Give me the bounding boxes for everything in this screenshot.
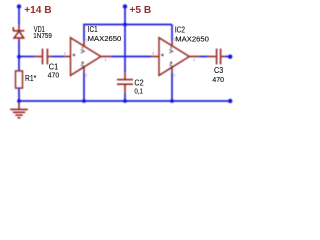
svg-text:470: 470 [48,72,60,79]
wire IC1 Vcc to +5V rail and rail to IC2 [84,25,172,42]
IC1 GND pin 2 (bottom) [83,67,85,73]
resistor R1 [16,71,23,88]
capacitor C3 [207,49,225,65]
node +5V terminal dot [123,4,127,8]
node A junction dot [17,55,21,59]
wire IC2 GND down [171,73,173,102]
svg-text:1N759: 1N759 [33,33,52,40]
svg-text:2: 2 [173,73,175,77]
svg-text:C3: C3 [214,66,223,75]
IC1 input pin 3 [65,56,71,58]
IC1 internal symbol top [81,47,85,54]
junction IC2 GND / ground rail [170,99,174,103]
svg-text:5: 5 [86,38,88,42]
op-amp U2 (IC2 MAX2650 triangle) [159,38,189,76]
junction C2 / ground rail [123,99,127,103]
wire from +14V terminal down to VD1 [18,7,20,25]
svg-text:R1*: R1* [25,74,36,83]
wire VD1 to node A [18,41,20,58]
IC1 Vcc pin 5 (top) [83,41,85,47]
svg-text:0,1: 0,1 [134,89,143,96]
junction +5V rail / C2 branch [123,23,127,27]
svg-text:4: 4 [193,58,195,62]
svg-text:IC1: IC1 [88,25,98,34]
wire node A to R1 [18,57,20,72]
wire node A to C1 [19,56,35,58]
wire IC2 out to C3 [199,56,207,58]
node +14V terminal dot [17,4,21,8]
svg-text:+5 В: +5 В [129,5,151,16]
svg-text:MAX2650: MAX2650 [175,34,209,43]
junction R1 / ground rail [17,99,21,103]
IC2 input pin 3 [151,56,159,58]
wire IC2 Vcc to rail [171,25,173,41]
svg-text:C2: C2 [134,79,143,88]
svg-text:3: 3 [152,52,154,56]
wire +5V terminal to rail [124,7,126,25]
wire IC1 GND down [83,73,85,102]
IC2 Vcc pin 5 (top) [171,40,173,46]
wire C2 to ground rail [124,94,126,102]
node ground-rail right terminal dot [228,99,232,103]
capacitor C2 [117,72,133,93]
IC2 input plus mark [161,54,164,57]
svg-text:470: 470 [212,77,224,84]
svg-text:4: 4 [104,58,106,62]
svg-text:+14 В: +14 В [24,5,51,16]
wire IC1 out to IC2 in [111,56,151,58]
IC1 output pin 4 [101,56,111,58]
ground rail (bottom wire) [19,100,229,102]
zener diode VD1 [13,25,24,42]
wire C1 to IC1 input [52,56,65,58]
IC2 GND pin 2 (bottom) [171,67,173,72]
IC1 input plus mark [73,54,76,57]
svg-text:2: 2 [85,73,87,77]
IC1 internal symbol bottom [81,61,85,68]
svg-text:MAX2650: MAX2650 [88,34,122,43]
IC2 internal symbol top [169,47,173,54]
node output terminal dot [228,55,232,59]
wire C3 to output terminal [225,56,229,58]
svg-text:IC2: IC2 [175,25,185,34]
ground symbol [10,103,28,118]
svg-text:3: 3 [64,51,66,55]
op-amp U1 (IC1 MAX2650 triangle) [71,38,101,76]
capacitor C1 [35,49,52,65]
IC2 internal symbol bottom [169,61,173,68]
junction IC1 GND / ground rail [82,99,86,103]
svg-text:C1: C1 [49,63,58,72]
wire R1 to ground rail [18,88,20,101]
wire +5V rail down to C2 (crosses signal, no junction) [124,25,126,73]
IC2 output pin 4 [189,56,199,58]
svg-text:5: 5 [174,37,176,41]
